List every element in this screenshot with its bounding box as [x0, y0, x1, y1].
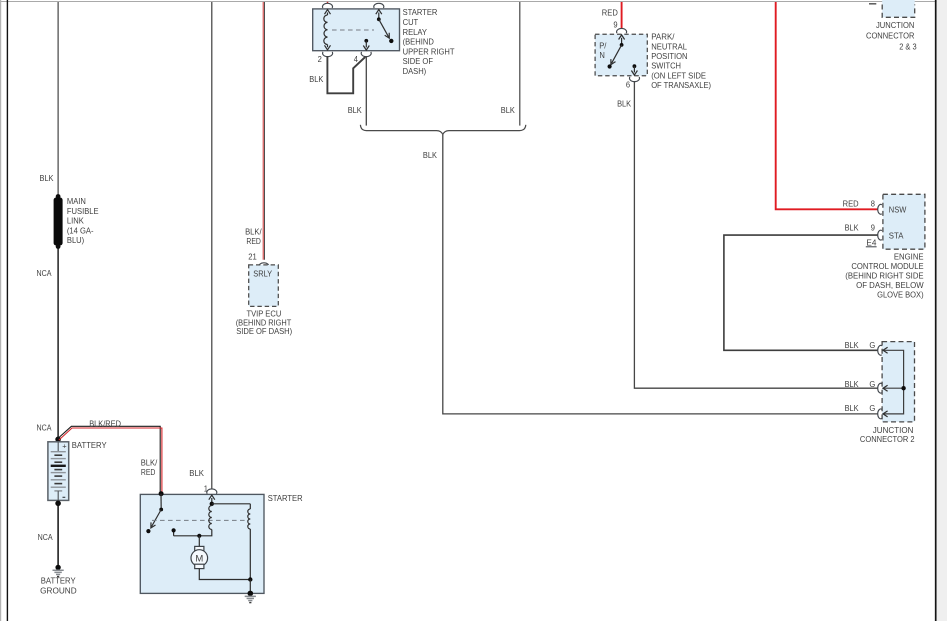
svg-text:STARTER: STARTER	[268, 494, 303, 503]
svg-text:JUNCTION: JUNCTION	[876, 21, 915, 30]
wire: BLK/RED to TVIP ECU (black half)	[264, 2, 266, 260]
starter cut relay box	[313, 9, 400, 51]
splice brace	[360, 125, 525, 135]
svg-text:BLK: BLK	[845, 224, 860, 233]
svg-text:(ON LEFT SIDE: (ON LEFT SIDE	[651, 71, 706, 80]
wire: battery to ground	[57, 503, 59, 567]
svg-text:STARTER: STARTER	[403, 8, 438, 17]
svg-text:G: G	[869, 404, 875, 413]
svg-text:(BEHIND: (BEHIND	[403, 38, 434, 47]
svg-text:GLOVE BOX): GLOVE BOX)	[877, 291, 924, 300]
node: battery negative	[55, 501, 61, 507]
relay mech dashed link	[332, 29, 374, 31]
svg-text:POSITION: POSITION	[651, 52, 688, 61]
svg-text:M: M	[195, 553, 203, 564]
svg-text:E4: E4	[866, 238, 877, 247]
svg-text:BLK: BLK	[617, 100, 632, 109]
relay bottom connector arcs	[323, 52, 333, 57]
svg-text:LINK: LINK	[67, 217, 85, 226]
pull-in coil	[209, 506, 212, 530]
svg-text:G: G	[869, 380, 875, 389]
wire: vertical BLK to starter pin 1	[211, 2, 213, 489]
junction connector 2 box	[882, 342, 914, 422]
node: starter ground	[248, 591, 254, 597]
starter switch	[160, 494, 162, 510]
svg-text:BLK: BLK	[348, 106, 363, 115]
node: fusible link bottom	[56, 244, 61, 249]
relay switch	[376, 10, 382, 15]
ECM connector arcs	[878, 204, 882, 214]
svg-text:NCA: NCA	[37, 269, 53, 278]
relay pin 4 contact	[364, 39, 368, 43]
svg-text:2 & 3: 2 & 3	[899, 42, 917, 51]
relay coil	[325, 10, 331, 15]
svg-text:4: 4	[354, 55, 359, 64]
P/N pin 6 contact	[633, 64, 637, 68]
junction connector 2 & 3 box	[882, 0, 915, 17]
wire: brace to junction connector 2 pin 3	[443, 135, 878, 414]
wire: vertical into fusible link	[57, 2, 59, 196]
svg-text:JUNCTION: JUNCTION	[873, 426, 914, 435]
svg-text:OF DASH, BELOW: OF DASH, BELOW	[856, 281, 924, 290]
svg-text:SWITCH: SWITCH	[651, 62, 681, 71]
svg-text:BLK/: BLK/	[245, 228, 262, 237]
svg-text:(BEHIND RIGHT: (BEHIND RIGHT	[236, 318, 292, 327]
TVIP ECU SRLY box	[249, 265, 279, 307]
right gutter	[937, 0, 947, 621]
svg-text:MAIN: MAIN	[67, 197, 86, 206]
starter ground symbol	[245, 596, 256, 598]
park/neutral position switch box	[595, 34, 647, 75]
svg-text:BLK: BLK	[845, 341, 860, 350]
svg-text:CUT: CUT	[403, 18, 419, 27]
wire: RED to ECM NSW pin 8	[776, 2, 878, 209]
svg-text:BLK: BLK	[423, 151, 438, 160]
page left border	[0, 0, 2, 621]
svg-text:21: 21	[248, 252, 257, 261]
connector 21 arc	[259, 263, 269, 268]
svg-text:BATTERY: BATTERY	[41, 577, 76, 586]
svg-text:FUSIBLE: FUSIBLE	[67, 207, 99, 216]
relay top connector arcs	[327, 2, 329, 4]
battery	[48, 442, 69, 501]
wire: RED to P/N switch	[621, 2, 623, 29]
svg-text:ENGINE: ENGINE	[894, 253, 924, 262]
node	[248, 577, 252, 581]
page top border	[0, 1, 947, 3]
svg-text:SIDE OF DASH): SIDE OF DASH)	[236, 327, 292, 336]
svg-text:1: 1	[204, 484, 209, 493]
svg-text:RED: RED	[246, 237, 261, 246]
P/N switch internals	[619, 35, 625, 40]
svg-text:GROUND: GROUND	[40, 586, 77, 595]
svg-text:2: 2	[318, 55, 323, 64]
engine control module box	[883, 194, 925, 249]
wire: far-left vertical BLK bus	[6, 0, 8, 621]
wire: ECM STA pin 9 to junction connector 2 pin 1	[724, 235, 878, 350]
wire: fusible link to battery	[57, 247, 59, 440]
svg-text:RELAY: RELAY	[403, 28, 428, 37]
svg-text:BLK/RED: BLK/RED	[89, 419, 121, 428]
pin arrows	[883, 347, 888, 353]
page right border	[935, 0, 937, 621]
svg-text:BLK: BLK	[501, 106, 516, 115]
svg-text:NCA: NCA	[38, 533, 54, 542]
svg-text:(BEHIND RIGHT SIDE: (BEHIND RIGHT SIDE	[845, 272, 923, 281]
svg-text:OF TRANSAXLE): OF TRANSAXLE)	[651, 81, 711, 90]
svg-text:NEUTRAL: NEUTRAL	[651, 42, 687, 51]
svg-text:PARK/: PARK/	[651, 33, 675, 42]
svg-text:RED: RED	[602, 8, 618, 17]
svg-text:BATTERY: BATTERY	[72, 441, 107, 450]
svg-text:SRLY: SRLY	[253, 269, 273, 278]
pin connector arcs	[878, 345, 882, 355]
svg-text:P/: P/	[599, 41, 607, 50]
starter mech dashed link	[152, 519, 248, 521]
svg-text:NCA: NCA	[37, 423, 53, 432]
starter motor	[195, 546, 204, 550]
svg-text:BLU): BLU)	[67, 236, 85, 245]
svg-text:TVIP ECU: TVIP ECU	[247, 310, 282, 319]
svg-text:9: 9	[871, 224, 876, 233]
wire: vertical BLK right of relay	[519, 2, 521, 126]
starter box	[140, 494, 264, 593]
node: starter BLK/RED entry	[159, 491, 164, 496]
svg-text:RED: RED	[843, 199, 859, 208]
svg-text:8: 8	[871, 199, 876, 208]
starter solenoid wiring	[212, 503, 251, 505]
svg-text:BLK/: BLK/	[141, 459, 158, 468]
wire: relay pin4 down to brace	[365, 56, 367, 125]
wire: P/N pin 6 to junction connector 2 pin 2	[634, 82, 877, 389]
svg-text:BLK: BLK	[309, 75, 324, 84]
svg-text:BLK: BLK	[845, 404, 860, 413]
coil bottom to contact	[174, 530, 212, 536]
battery ground symbol	[55, 565, 60, 570]
node: fusible link top	[56, 194, 61, 199]
main fusible link	[54, 198, 63, 246]
svg-text:G: G	[869, 341, 875, 350]
svg-text:CONTROL MODULE: CONTROL MODULE	[851, 262, 923, 271]
wire: BLK/RED to TVIP ECU (red half)	[262, 2, 264, 260]
svg-text:SIDE OF: SIDE OF	[403, 57, 433, 66]
svg-text:+: +	[62, 442, 67, 451]
pin 6 connector arc	[630, 77, 640, 82]
svg-text:6: 6	[626, 80, 631, 89]
svg-text:CONNECTOR: CONNECTOR	[866, 32, 915, 41]
node: bus junction	[901, 386, 905, 390]
node: motor tap	[197, 534, 201, 538]
wire BLK/RED battery to starter (black half)	[58, 426, 161, 493]
svg-text:(14 GA-: (14 GA-	[67, 226, 94, 235]
svg-text:BLK: BLK	[189, 469, 204, 478]
pin 9 connector arc	[617, 28, 627, 33]
wire BLK/RED battery to starter (red half)	[59, 428, 162, 493]
svg-text:BLK: BLK	[845, 380, 860, 389]
motor to ground run	[199, 569, 250, 580]
svg-text:NSW: NSW	[889, 206, 907, 215]
svg-text:N: N	[599, 51, 605, 60]
svg-text:RED: RED	[141, 468, 156, 477]
hold-in coil	[249, 504, 251, 509]
svg-text:9: 9	[613, 21, 618, 30]
svg-text:DASH): DASH)	[403, 67, 427, 76]
svg-text:BLK: BLK	[40, 174, 55, 183]
stray dash	[869, 3, 876, 5]
svg-text:CONNECTOR 2: CONNECTOR 2	[860, 435, 915, 444]
starter pin 1	[207, 489, 217, 494]
svg-text:UPPER RIGHT: UPPER RIGHT	[403, 47, 455, 56]
junction connector 2 bus	[884, 350, 904, 414]
wire: relay pin2 to pin4 jumper	[327, 56, 365, 93]
svg-text:STA: STA	[889, 231, 904, 240]
node: battery positive junction	[55, 437, 61, 443]
